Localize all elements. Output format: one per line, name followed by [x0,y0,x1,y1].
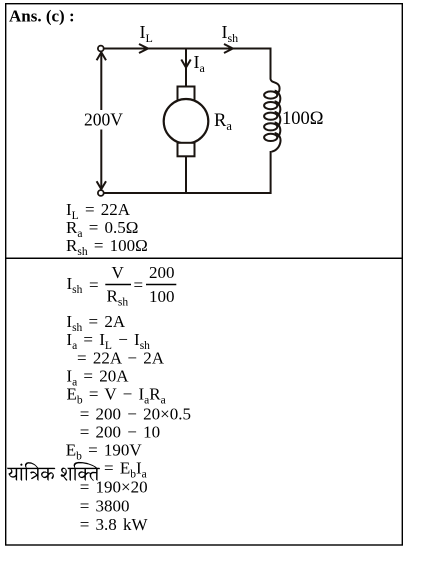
svg-text:=: = [134,276,144,295]
svg-text:IL: IL [140,22,153,45]
inductor coil (shunt field) [264,79,280,152]
arrowhead down (voltage arrow bottom) [97,181,106,189]
arrowhead I_sh on top wire [224,44,233,53]
svg-text:200V: 200V [84,110,123,130]
wire: left rail upper segment [100,52,102,110]
svg-text:= 200 − 10: = 200 − 10 [80,422,160,441]
motor brush bottom (rect) [178,143,195,157]
wire: left rail lower segment [100,130,102,190]
terminal top-left (open circle) [98,46,104,52]
svg-text:100Ω: 100Ω [282,109,324,129]
svg-text:100: 100 [149,287,175,306]
fraction bar 1 [105,284,131,286]
svg-text:Ia: Ia [194,52,206,75]
svg-text:= 190×20: = 190×20 [80,478,148,497]
svg-text:Ish: Ish [222,22,239,45]
arrowhead I_a (down) [181,60,190,68]
wire: right rail upper [270,48,272,80]
fraction bar 2 [146,284,176,286]
svg-text:Ans. (c) :: Ans. (c) : [9,7,75,26]
wire: middle branch upper [185,49,187,87]
svg-text:V: V [112,263,125,282]
arrowhead up (voltage arrow top) [97,52,106,60]
svg-text:Eb = V − IaRa: Eb = V − IaRa [67,385,166,407]
terminal bottom-left (open circle) [98,190,104,196]
svg-text:Ra: Ra [214,111,232,133]
hindi label: yantrik shakti (mechanical power) traced path [7,462,100,481]
svg-text:=: = [89,276,99,295]
arrowhead I_L on top wire [139,44,148,53]
svg-text:Ish: Ish [67,274,83,296]
svg-text:200: 200 [149,263,175,282]
svg-text:= 22A − 2A: = 22A − 2A [77,349,165,368]
wire: right rail lower [270,151,272,194]
wire: middle branch lower [185,156,187,193]
svg-text:= 200 − 20×0.5: = 200 − 20×0.5 [80,404,191,423]
wire: bottom horizontal [104,192,272,194]
motor armature circle [164,99,209,144]
svg-text:Rsh: Rsh [107,287,129,309]
motor brush top (rect) [178,87,195,101]
wire: top horizontal [104,48,272,50]
svg-text:= 3.8 kW: = 3.8 kW [80,515,149,534]
outer border box top section [6,4,403,259]
outer border box bottom section [6,258,403,545]
svg-text:= 3800: = 3800 [80,496,130,515]
